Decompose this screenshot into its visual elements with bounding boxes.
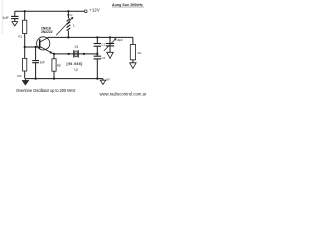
wire collector lead	[47, 36, 49, 39]
node C2 bottom	[96, 78, 98, 80]
terminal +12V	[84, 7, 99, 12]
wire emitter row	[54, 53, 97, 55]
svg-text:10pF: 10pF	[116, 38, 123, 42]
svg-text:R2: R2	[17, 74, 21, 78]
capacitor C2	[94, 54, 106, 79]
svg-text:+12V: +12V	[89, 7, 99, 12]
svg-text:[96.986]: [96.986]	[67, 62, 83, 66]
svg-text:R1: R1	[18, 34, 22, 38]
wire top supply rail	[15, 10, 84, 12]
node base bypass tap	[35, 46, 37, 48]
svg-text:0V: 0V	[106, 77, 110, 81]
ground RL	[130, 63, 136, 69]
node base divider	[24, 46, 26, 48]
capacitor base bypass 1nF	[32, 47, 45, 79]
svg-text:C1: C1	[101, 42, 105, 46]
capacitor input 1nF	[3, 11, 19, 21]
watermark author top right	[112, 3, 144, 7]
crystal X1	[67, 45, 83, 71]
resistor RL	[130, 44, 142, 62]
ground trimmer	[107, 52, 114, 58]
node bypass cap bottom	[35, 78, 37, 80]
node trimmer top	[109, 36, 111, 38]
svg-text:1nF: 1nF	[40, 60, 46, 64]
node emitter	[53, 53, 55, 55]
node RE bottom	[53, 78, 55, 80]
svg-text:RL: RL	[138, 51, 142, 55]
capacitor trimmer 10pF	[104, 37, 123, 52]
ground 0V	[100, 77, 110, 84]
svg-text:www.radiocontrol.com.ar: www.radiocontrol.com.ar	[100, 91, 148, 96]
watermark url bottom right	[100, 91, 148, 96]
node crystal row right	[96, 53, 98, 55]
svg-text:X1: X1	[75, 45, 79, 49]
svg-text:Lp: Lp	[74, 68, 78, 72]
resistor RE	[52, 54, 61, 79]
wire RL lead	[132, 37, 134, 44]
svg-text:Overtone Oscillator up to 200: Overtone Oscillator up to 200 MHz	[16, 88, 75, 93]
node crystal right	[83, 53, 85, 55]
node C1 top	[96, 36, 98, 38]
node R1 top	[24, 10, 26, 12]
svg-text:C2: C2	[101, 56, 105, 60]
caption	[16, 88, 75, 93]
transistor Q1 2N918/2N2222	[37, 27, 54, 54]
wire bottom rail	[25, 78, 103, 80]
svg-text:RE: RE	[57, 64, 61, 68]
node L bottom	[67, 36, 69, 38]
node crystal left	[68, 53, 70, 55]
wire collector rail	[48, 36, 133, 38]
inductor L variable	[56, 11, 75, 37]
capacitor C1	[94, 37, 106, 54]
resistor R2	[17, 47, 26, 79]
node L top	[67, 10, 69, 12]
resistor R1	[18, 11, 26, 47]
svg-text:1nF: 1nF	[3, 16, 10, 20]
border frame remnant left	[1, 0, 3, 34]
svg-text:2N2222: 2N2222	[41, 30, 53, 34]
wire base	[25, 46, 40, 48]
ground bottom rail	[22, 79, 29, 86]
svg-text:L: L	[73, 24, 75, 28]
svg-text:Aung Soe 200kHz: Aung Soe 200kHz	[112, 3, 143, 7]
ground input	[12, 22, 18, 26]
